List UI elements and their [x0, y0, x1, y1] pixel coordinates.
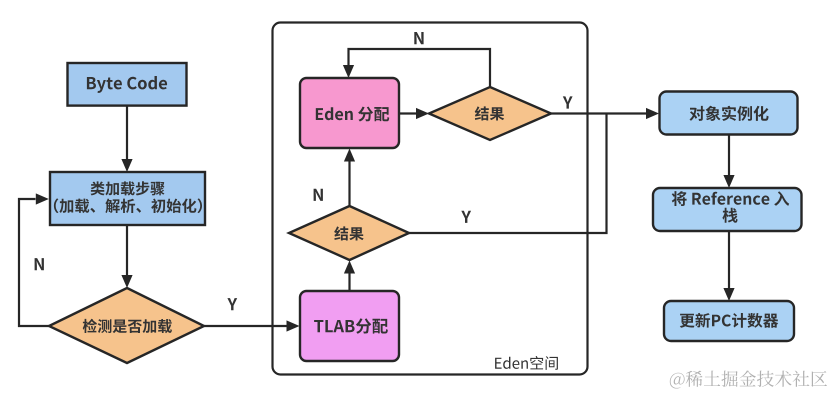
wire result diamond (middle) -> Eden box [344, 149, 355, 207]
box update PC counter [664, 301, 794, 341]
label Eden space [495, 356, 558, 370]
diamond: result (top) [429, 87, 551, 140]
label N (top loop) [414, 32, 423, 44]
label N (left loop) [35, 258, 44, 270]
wire object instantiation -> reference push box [723, 135, 734, 189]
watermark [670, 371, 827, 389]
Eden space container [273, 23, 588, 375]
box object instantiation [660, 92, 798, 135]
label Y (top result) [563, 96, 573, 108]
wire reference push box -> update PC box [723, 231, 734, 301]
wire class-load box -> decision diamond [121, 225, 132, 288]
box class loading steps [50, 172, 205, 225]
wire N loop: diamond left -> class-load box left [19, 193, 49, 326]
diamond: check whether loaded [49, 288, 204, 363]
box Eden allocation [300, 78, 399, 148]
wire Byte Code -> class-load box [121, 105, 132, 172]
label Y (middle result) [461, 211, 471, 223]
wire Y: result diamond (middle) -> up to object line [409, 114, 607, 234]
wire Eden box -> result diamond (top) [399, 108, 429, 119]
label N (middle) [314, 189, 323, 201]
wire Y: diamond right -> TLAB box [204, 320, 300, 331]
box Byte Code [68, 63, 187, 106]
wire Y: result diamond (top) -> object instantiation box [551, 108, 659, 119]
box push Reference to stack [653, 188, 802, 231]
diamond: result (middle) [289, 206, 409, 260]
box TLAB allocation [300, 291, 399, 361]
wire TLAB box -> result diamond (middle) [344, 261, 355, 292]
wire N loop: result diamond (top) -> Eden box top [343, 49, 490, 87]
label Y (decision diamond right) [227, 298, 237, 310]
